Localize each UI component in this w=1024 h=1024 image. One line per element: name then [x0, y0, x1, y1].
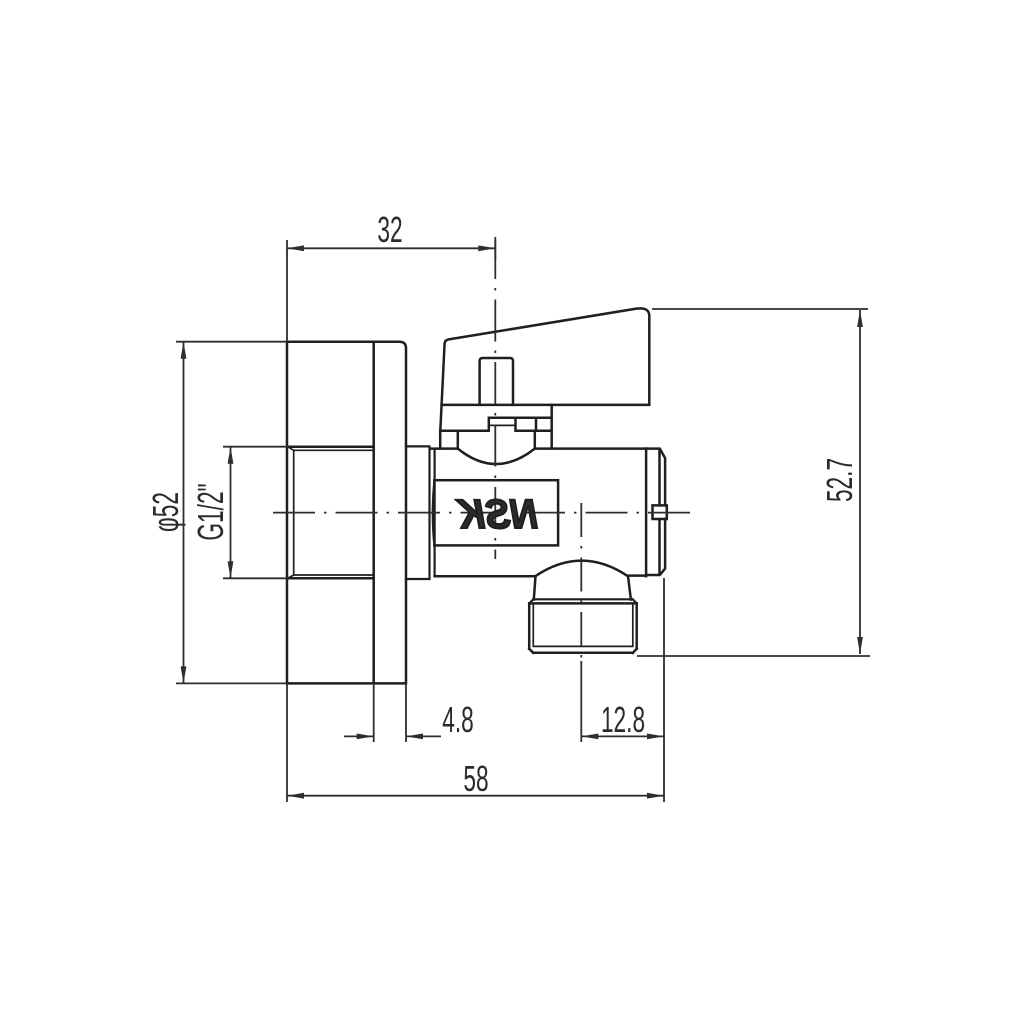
svg-text:58: 58 [463, 760, 488, 799]
svg-text:4.8: 4.8 [442, 701, 474, 740]
svg-text:G1/2": G1/2" [192, 483, 231, 540]
svg-text:12.8: 12.8 [601, 701, 645, 740]
svg-text:φ52: φ52 [147, 492, 186, 532]
svg-text:NSK: NSK [456, 492, 538, 538]
svg-text:52.7: 52.7 [821, 458, 860, 502]
svg-text:32: 32 [377, 211, 402, 250]
